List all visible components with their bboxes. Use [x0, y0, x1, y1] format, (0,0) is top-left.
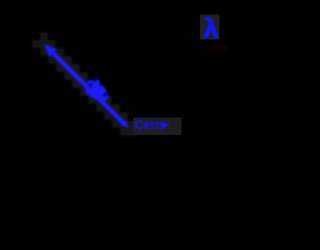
compression artifact blocks along vector	[32, 32, 136, 136]
faint dark smudge	[212, 41, 228, 53]
arrowhead at upper-left tip	[44, 44, 57, 57]
label box behind lambda	[200, 15, 220, 40]
svg-text:λ: λ	[204, 14, 219, 44]
arrowhead at lower-right end	[121, 120, 129, 128]
label box behind text "Ceris"	[133, 118, 182, 136]
mid-line marker blob	[85, 79, 108, 101]
svg-text:Ceris: Ceris	[135, 118, 166, 132]
wire: vector shaft	[47, 47, 124, 124]
